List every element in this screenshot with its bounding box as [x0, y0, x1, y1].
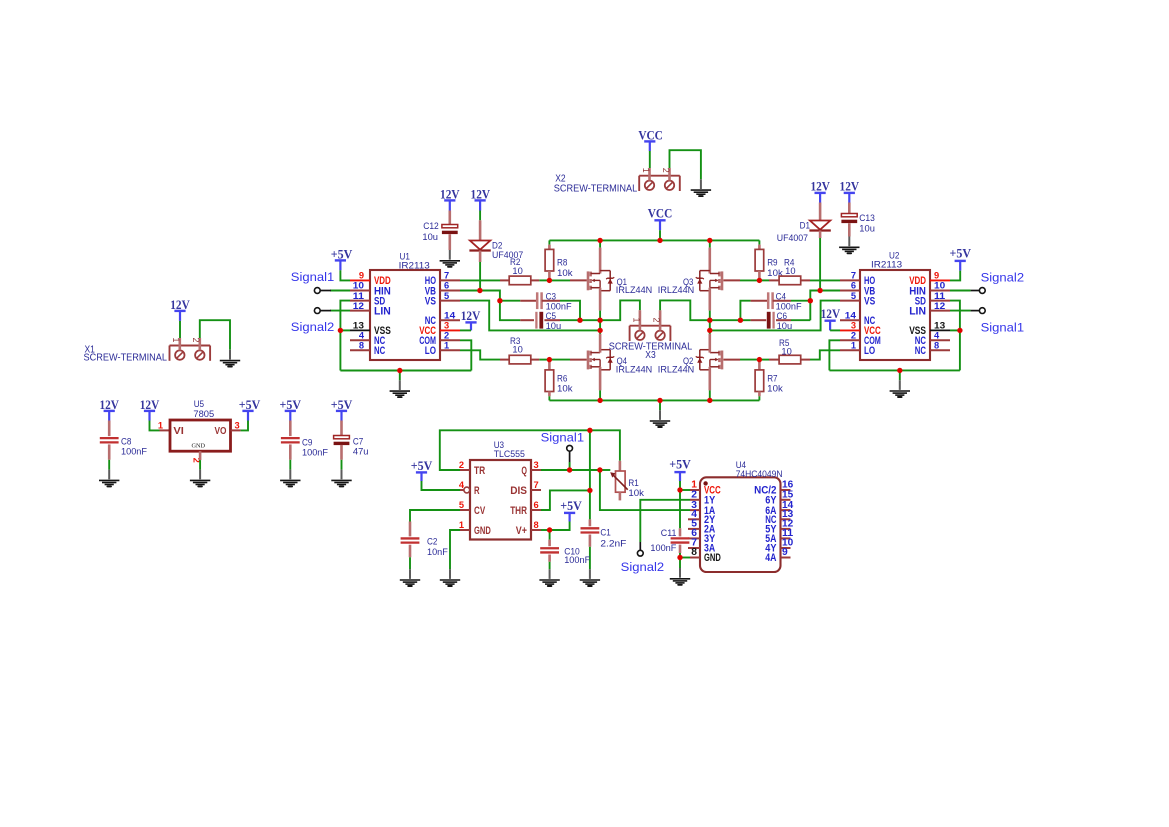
svg-text:TR: TR: [474, 465, 485, 477]
wire U2 bottom VSS bus: [829, 369, 960, 371]
svg-text:10: 10: [512, 266, 522, 276]
wire U1 HO to R2: [460, 279, 500, 281]
svg-text:R7: R7: [767, 373, 777, 383]
screw terminal X1: [170, 345, 211, 347]
U2 pin 5 VS: [840, 300, 860, 302]
svg-text:C8: C8: [121, 436, 131, 446]
wire 12V to U1 VCC: [470, 322, 472, 330]
svg-text:9: 9: [782, 547, 788, 558]
junction (D2 at VB): [480, 291, 500, 301]
svg-text:10k: 10k: [767, 384, 783, 394]
svg-text:D1: D1: [800, 221, 810, 231]
svg-text:1: 1: [631, 318, 641, 323]
svg-text:12: 12: [353, 301, 364, 311]
svg-text:IRLZ44N: IRLZ44N: [616, 285, 652, 295]
wire C7 to ground: [341, 460, 343, 470]
U1 pin 1 LO: [440, 349, 460, 351]
wire junction to Q4 gate: [549, 359, 570, 361]
svg-text:13: 13: [934, 321, 945, 331]
wire U3 THR loop: [541, 490, 590, 510]
pin connector circle (Signal2): [637, 550, 643, 556]
svg-text:+5V: +5V: [950, 246, 972, 260]
IC U3 TLC555: [470, 460, 531, 540]
svg-text:2: 2: [851, 331, 856, 341]
svg-text:7805: 7805: [193, 409, 214, 419]
svg-text:100nF: 100nF: [650, 543, 676, 553]
svg-text:12V: 12V: [840, 180, 860, 194]
svg-text:10: 10: [353, 281, 364, 291]
wire C9 to ground: [289, 460, 291, 470]
U4 pin 16 NC/2: [781, 489, 791, 491]
svg-text:C6: C6: [777, 311, 787, 321]
potentiometer R1: [619, 461, 622, 471]
screw terminal X3: [630, 325, 671, 327]
wire C6 right up: [791, 319, 810, 321]
svg-text:1: 1: [641, 168, 651, 173]
wire U5 pin2 to ground: [199, 451, 202, 460]
wire X3 pin2 to right phase: [660, 300, 710, 320]
transistor Q1 IRLZ44N: [599, 240, 601, 247]
U4 pin 3 1A: [690, 509, 700, 511]
svg-text:10u: 10u: [859, 224, 875, 234]
diode D1 UF4007: [819, 193, 821, 203]
junction (Q drop): [600, 469, 610, 471]
wire +5V to U2 VDD: [959, 261, 961, 271]
wire U3 Q output: [541, 469, 570, 471]
wire right phase column: [709, 320, 711, 334]
svg-text:Signal1: Signal1: [291, 270, 335, 284]
U4 pin 7 3A: [688, 547, 700, 549]
wire C1 column: [589, 430, 591, 519]
capacitor C4: [740, 301, 750, 321]
resistor R2: [500, 279, 509, 281]
U3 pin 2 TR: [460, 469, 470, 471]
wire U3 GND to ground: [450, 530, 460, 569]
U2 pin 13 VSS: [930, 329, 950, 331]
svg-text:SCREW-TERMINAL: SCREW-TERMINAL: [84, 353, 168, 364]
svg-text:VS: VS: [864, 295, 876, 307]
IC U1 IR2113: [370, 270, 440, 360]
wire U2 HIN to pin circle: [950, 290, 971, 292]
U2 pin 10 HIN: [930, 290, 950, 292]
U1 pin 6 VB: [440, 290, 460, 292]
wire R5 to U2 LO: [810, 350, 840, 359]
ground (bridge): [659, 410, 661, 420]
svg-text:1: 1: [851, 341, 856, 351]
pin connector circle (U1 LIN): [320, 310, 331, 312]
U1 pin 4 NC: [350, 339, 370, 341]
svg-text:NC: NC: [915, 345, 926, 357]
svg-text:1: 1: [171, 338, 181, 343]
svg-text:10: 10: [785, 266, 795, 276]
svg-text:GND: GND: [704, 552, 721, 564]
svg-text:VCC: VCC: [648, 207, 673, 221]
svg-text:THR: THR: [510, 505, 527, 517]
U3 pin 5 CV: [460, 509, 470, 511]
wire C1 to ground: [589, 547, 591, 569]
capacitor C5 polarized: [500, 301, 520, 321]
svg-text:R8: R8: [557, 258, 567, 268]
transistor Q2 IRLZ44N: [721, 351, 724, 370]
wire U1 VS run: [460, 301, 600, 331]
U2 pin 1 LO: [840, 349, 860, 351]
wire U2 SD down: [950, 301, 960, 371]
junction dots overlay: [338, 328, 343, 333]
svg-text:V+: V+: [516, 525, 527, 537]
svg-text:LIN: LIN: [909, 305, 926, 317]
wire C5 right to phase junction: [560, 319, 580, 321]
svg-text:100nF: 100nF: [564, 555, 590, 565]
svg-text:14: 14: [845, 311, 857, 321]
wire D1 to U2 VB: [819, 231, 822, 239]
svg-text:+5V: +5V: [560, 499, 582, 513]
svg-text:8: 8: [534, 520, 539, 530]
wire U1 ground stub: [399, 371, 401, 381]
svg-text:11: 11: [934, 291, 945, 301]
svg-text:10k: 10k: [628, 488, 644, 498]
wire C10 to ground: [549, 562, 551, 569]
wire C4 right to VB junction: [791, 300, 810, 302]
ground (C1): [589, 569, 591, 579]
wire U3 V+ to +5V: [541, 529, 550, 531]
wire U4 GND to ground: [679, 558, 681, 569]
U1 pin 11 SD: [350, 300, 370, 302]
wire U1 bottom VSS bus: [340, 370, 471, 372]
wire phase column: [599, 320, 601, 334]
svg-text:10k: 10k: [557, 268, 573, 278]
svg-text:7: 7: [444, 271, 449, 281]
svg-text:9: 9: [934, 271, 939, 281]
wire C3 right to phase: [560, 301, 580, 321]
svg-text:4: 4: [459, 480, 465, 490]
capacitor C13 polarized: [848, 193, 850, 203]
U1 pin 12 LIN: [330, 310, 350, 312]
svg-text:2: 2: [652, 318, 662, 323]
svg-text:CV: CV: [474, 505, 485, 517]
wire VCC to X2 pin1: [649, 141, 651, 151]
svg-text:U5: U5: [194, 399, 204, 409]
IC U4 74HC4049N: [700, 477, 781, 572]
regulator U5 7805: [160, 429, 171, 431]
svg-text:IR2113: IR2113: [871, 260, 902, 270]
wire U2 COM down: [829, 340, 840, 370]
svg-text:1: 1: [444, 341, 449, 351]
wire +5V to U1 VDD pin9: [339, 260, 341, 270]
wire 12V to U5 pin1: [148, 411, 150, 421]
svg-text:7: 7: [851, 271, 856, 281]
ground (X1): [229, 350, 231, 360]
svg-text:12: 12: [934, 301, 945, 311]
capacitor C10: [549, 530, 551, 540]
svg-text:74HC4049N: 74HC4049N: [736, 469, 783, 479]
wire R3 to junction: [539, 359, 549, 361]
wire X1 pin1 to 12V: [179, 311, 181, 321]
svg-text:X3: X3: [645, 350, 655, 361]
ground (C7): [341, 470, 343, 480]
U2 pin 4 NC: [930, 339, 950, 341]
svg-text:LO: LO: [864, 345, 875, 357]
U2 pin 2 COM: [840, 339, 860, 341]
svg-text:6: 6: [534, 500, 539, 510]
svg-text:12V: 12V: [810, 180, 830, 194]
svg-text:UF4007: UF4007: [777, 233, 808, 243]
U2 pin 8 NC: [930, 349, 950, 351]
wire C8 to ground: [108, 460, 110, 470]
U4 pin 11 5A: [781, 537, 791, 539]
pin connector circle (U2 LIN): [979, 308, 985, 314]
svg-text:10: 10: [934, 281, 945, 291]
ground (U4): [679, 568, 681, 578]
wire U2 LIN to pin circle: [950, 310, 971, 312]
svg-text:1: 1: [459, 520, 464, 530]
U3 pin 6 THR: [531, 509, 541, 511]
resistor R7: [758, 360, 761, 370]
svg-text:8: 8: [934, 341, 939, 351]
transistor Q3 IRLZ44N: [709, 240, 711, 247]
svg-text:8: 8: [691, 547, 697, 558]
capacitor C6 polarized: [740, 319, 750, 321]
ground (C8): [108, 470, 110, 480]
wire U2 ground stub: [899, 370, 901, 380]
resistor R5: [759, 359, 769, 361]
svg-text:TLC555: TLC555: [494, 449, 525, 459]
svg-text:3: 3: [851, 321, 856, 331]
U4 pin 15 6Y: [781, 499, 791, 501]
svg-text:8: 8: [359, 341, 364, 351]
wire 12V to D2: [479, 200, 481, 210]
svg-text:2: 2: [444, 331, 449, 341]
capacitor C7 polarized: [340, 411, 342, 421]
svg-text:C1: C1: [600, 527, 610, 537]
svg-text:100nF: 100nF: [121, 447, 147, 457]
junction (U4 GND): [680, 557, 690, 559]
svg-text:11: 11: [353, 291, 364, 301]
svg-text:NC: NC: [374, 345, 385, 357]
svg-text:1: 1: [158, 420, 163, 430]
VCC bus top: [549, 239, 759, 241]
IC U2 IR2113: [860, 270, 930, 360]
svg-text:Signal2: Signal2: [621, 560, 665, 574]
capacitor C8: [108, 411, 110, 421]
svg-text:VO: VO: [215, 426, 227, 437]
wire R4 to U2 HO: [810, 279, 840, 281]
U1 pin 14 NC: [440, 319, 460, 321]
wire phase to X3 pin1: [600, 300, 640, 320]
svg-text:C4: C4: [776, 291, 786, 301]
wire U1 SD down to VSS net: [340, 301, 350, 371]
wire U2 VB: [820, 290, 840, 292]
U1 pin 3 VCC: [440, 329, 460, 331]
resistor R9: [758, 240, 760, 244]
svg-text:2: 2: [661, 168, 671, 173]
capacitor C3: [500, 300, 520, 302]
wire right phase to C6 row: [710, 319, 741, 321]
U2 pin 9 VDD: [930, 279, 950, 281]
capacitor C2: [409, 522, 412, 537]
resistor R4: [759, 279, 769, 281]
pin connector circle (Signal1): [567, 445, 573, 451]
wire Q to R1 wiper: [570, 469, 600, 471]
ground (C9): [289, 470, 291, 480]
U4 pin 13 NC: [781, 518, 791, 520]
svg-text:7: 7: [534, 480, 539, 490]
wire VCC to bus: [659, 220, 661, 230]
svg-text:C7: C7: [353, 436, 363, 446]
svg-text:C11: C11: [661, 528, 677, 538]
ground (U1): [399, 380, 401, 390]
U1 pin 5 VS: [440, 300, 460, 302]
ground (C13): [848, 237, 850, 247]
svg-text:IRLZ44N: IRLZ44N: [658, 364, 694, 374]
svg-text:Q: Q: [521, 465, 527, 477]
wire VB S-bend: [810, 291, 820, 301]
wire U1 VB to bootstrap caps: [460, 290, 480, 292]
U3 pin 7 DIS: [531, 489, 541, 491]
wire C2 to ground: [409, 557, 411, 569]
svg-text:C2: C2: [427, 537, 437, 547]
U1 pin 8 NC: [350, 349, 370, 351]
wire U3 CV to C2: [410, 510, 460, 522]
U1 pin 7 HO: [440, 279, 460, 281]
pin connector circle (U2 HIN): [979, 288, 985, 294]
svg-text:10u: 10u: [546, 321, 562, 331]
U4 pin 4 2Y: [688, 518, 700, 520]
U4 pin 6 3Y: [688, 537, 700, 539]
U4 pin 2 1Y: [690, 499, 700, 501]
svg-text:C3: C3: [546, 291, 556, 301]
U4 pin 9 4A: [781, 557, 791, 559]
svg-text:DIS: DIS: [510, 485, 527, 497]
ground (U2): [899, 380, 901, 390]
U1 pin 10 HIN: [330, 290, 350, 292]
resistor R6: [548, 360, 551, 370]
svg-text:R: R: [474, 485, 480, 497]
U1 pin 13 VSS: [350, 329, 370, 331]
U2 pin 7 HO: [840, 279, 860, 281]
svg-text:LO: LO: [425, 345, 436, 357]
svg-text:5: 5: [459, 500, 464, 510]
wire bus ground stub: [659, 400, 661, 410]
resistor R3: [500, 359, 509, 361]
pin connector circle (U1 HIN): [320, 290, 331, 292]
svg-text:IRLZ44N: IRLZ44N: [616, 364, 652, 374]
svg-text:10nF: 10nF: [427, 547, 448, 557]
svg-text:3: 3: [235, 420, 240, 430]
ground (X2): [700, 179, 702, 189]
svg-text:6: 6: [444, 281, 449, 291]
svg-text:Signal1: Signal1: [541, 431, 585, 445]
resistor R8: [548, 240, 550, 244]
svg-text:5: 5: [444, 291, 449, 301]
svg-text:4: 4: [359, 331, 365, 341]
U4 pin 10 4Y: [781, 547, 791, 549]
svg-text:GND: GND: [474, 525, 491, 537]
wire junction to Q1 gate: [549, 279, 570, 281]
svg-text:14: 14: [444, 311, 456, 321]
capacitor C9: [289, 411, 291, 421]
U2 pin 3 VCC: [840, 329, 860, 331]
svg-text:6: 6: [851, 281, 856, 291]
ground (U3): [449, 569, 451, 579]
wire top loop to R1: [590, 430, 620, 461]
svg-text:C12: C12: [423, 221, 439, 231]
svg-text:4: 4: [934, 331, 940, 341]
ground (C12): [449, 250, 451, 260]
transistor Q4 IRLZ44N: [587, 351, 590, 370]
svg-text:C9: C9: [302, 437, 312, 447]
U2 pin 6 VB: [840, 290, 860, 292]
svg-text:2: 2: [459, 460, 464, 470]
wire Q3 source to phase: [709, 311, 711, 321]
wire X1 pin2 to ground: [200, 320, 230, 350]
capacitor C11: [679, 490, 681, 528]
svg-text:R1: R1: [628, 478, 638, 488]
wire U3 TR top loop: [440, 430, 590, 470]
U2 pin 14 NC: [840, 319, 860, 321]
ground (C10): [549, 569, 551, 579]
capacitor C12 polarized: [449, 200, 451, 210]
svg-text:5: 5: [851, 291, 856, 301]
junction (C10 tap): [550, 522, 570, 531]
ground (C2): [409, 569, 411, 579]
svg-text:C5: C5: [546, 311, 556, 321]
U1 pin 2 COM: [440, 339, 460, 341]
wire +5V to U3 R: [420, 472, 422, 481]
ground bus bottom: [549, 399, 759, 401]
svg-text:3: 3: [444, 321, 449, 331]
capacitor C1: [589, 519, 592, 526]
U1 pin 9 VDD: [350, 279, 370, 281]
U2 pin 12 LIN: [930, 310, 950, 312]
svg-text:10k: 10k: [557, 384, 573, 394]
svg-text:VS: VS: [425, 295, 437, 307]
svg-text:C13: C13: [859, 213, 875, 223]
wire R2 to R8 junction: [539, 279, 549, 281]
svg-text:10u: 10u: [777, 321, 793, 331]
svg-text:Signal2: Signal2: [291, 320, 335, 334]
svg-text:SCREW-TERMINAL: SCREW-TERMINAL: [554, 184, 638, 195]
svg-text:10u: 10u: [422, 232, 438, 242]
svg-text:R6: R6: [557, 373, 567, 383]
svg-text:9: 9: [359, 271, 364, 281]
wire U1 COM down: [460, 340, 471, 370]
svg-text:R9: R9: [767, 258, 777, 268]
svg-text:12V: 12V: [821, 307, 841, 321]
wire U2 VS run: [710, 301, 840, 331]
svg-text:+5V: +5V: [669, 458, 691, 472]
svg-text:LIN: LIN: [374, 305, 391, 317]
svg-text:3: 3: [534, 460, 539, 470]
svg-text:VI: VI: [173, 426, 184, 437]
U3 pin 4 R: [460, 489, 464, 491]
wire +5V to U4 VCC: [679, 472, 681, 481]
diode D2 UF4007: [479, 220, 482, 240]
svg-text:100nF: 100nF: [776, 301, 802, 311]
U4 pin 8 GND: [690, 557, 700, 559]
wire U1 LO to R3: [460, 350, 500, 359]
screw terminal X2: [639, 175, 680, 177]
U3 pin 3 Q: [531, 469, 541, 471]
svg-text:IRLZ44N: IRLZ44N: [658, 285, 694, 295]
wire 12V to U2 VCC: [829, 321, 831, 331]
svg-text:+5V: +5V: [411, 459, 433, 473]
U3 pin 1 GND: [460, 529, 470, 531]
wire Q3 gate to junction: [723, 279, 740, 281]
U4 pin 12 5Y: [781, 528, 791, 530]
svg-text:GND: GND: [192, 442, 206, 449]
wire D2 to U1 VB: [479, 251, 482, 263]
svg-text:2.2nF: 2.2nF: [600, 538, 626, 548]
